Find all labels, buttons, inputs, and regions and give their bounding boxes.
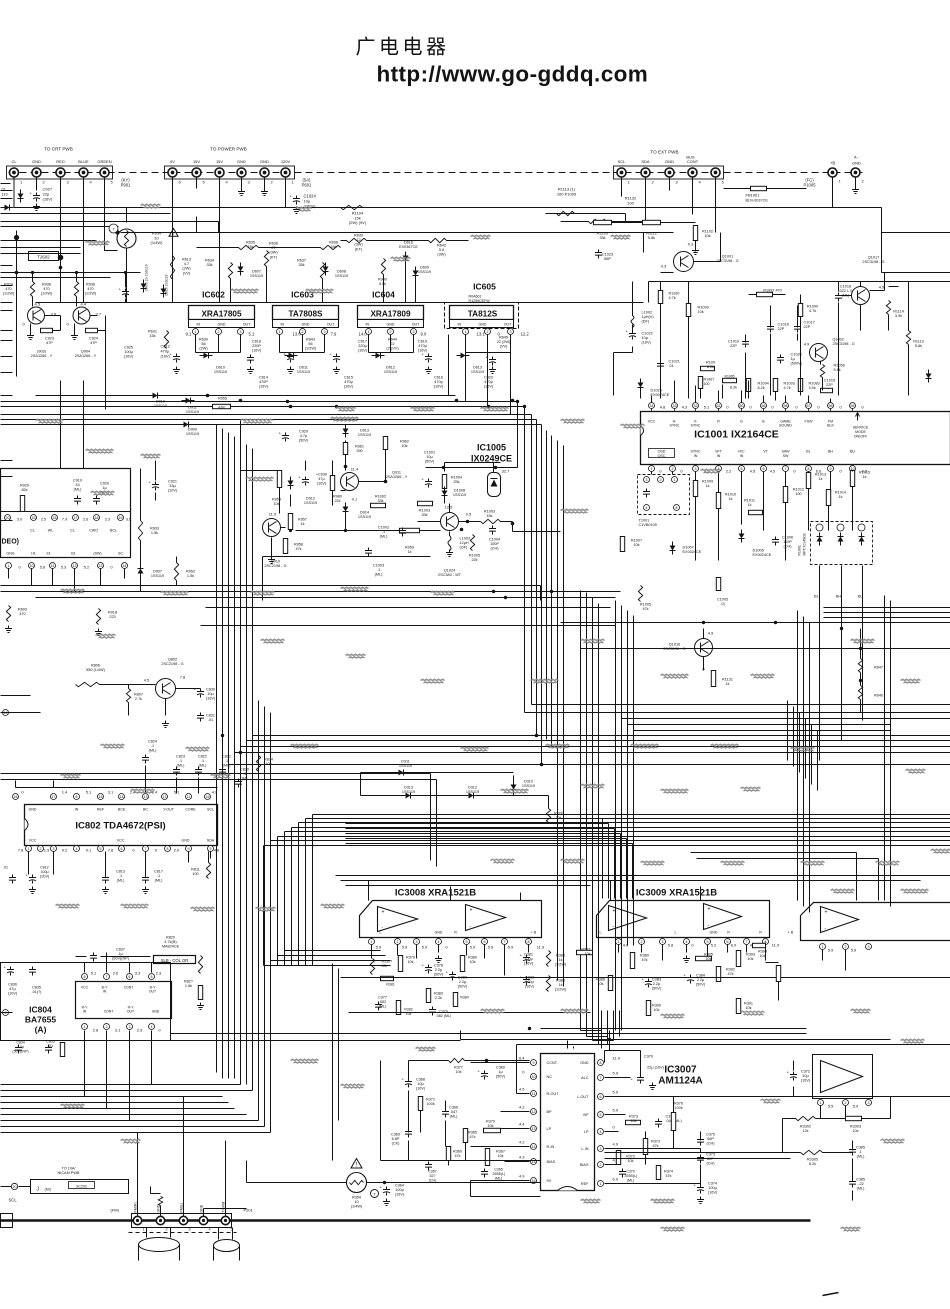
svg-text:D909: D909 — [188, 428, 197, 432]
wire bus y395 — [36, 395, 456, 397]
svg-text:15k: 15k — [247, 245, 253, 249]
wire SCL drop — [622, 177, 716, 233]
transformer T1001 dashed box — [638, 475, 690, 515]
svg-text:220P: 220P — [252, 344, 261, 348]
svg-text:T1001: T1001 — [639, 519, 650, 523]
wire reg drops to bus — [449, 335, 511, 415]
svg-text:AM1124A: AM1124A — [658, 1076, 702, 1087]
wire right rail y281 — [649, 282, 950, 303]
svg-text:5.9: 5.9 — [613, 1108, 619, 1113]
wire left edge stub — [1, 302, 13, 304]
label D312 — [466, 786, 479, 795]
svg-text:(KT): (KT) — [355, 247, 363, 251]
svg-text:C376: C376 — [644, 1055, 653, 1059]
svg-text:470: 470 — [19, 612, 25, 616]
svg-text:10μ: 10μ — [642, 336, 648, 340]
wire bus y625 — [201, 625, 616, 627]
label C375 — [706, 1133, 715, 1146]
svg-text:IC602: IC602 — [202, 290, 225, 300]
junction dot bus — [455, 399, 459, 403]
resistor R1058 — [820, 365, 824, 378]
svg-text:TA7808S: TA7808S — [289, 310, 324, 319]
svg-text:2: 2 — [600, 1163, 602, 1167]
svg-text:R3307: R3307 — [382, 960, 393, 964]
svg-text:5.8: 5.8 — [40, 566, 45, 570]
svg-text:.0055(L): .0055(L) — [624, 1174, 637, 1178]
transistor Q1017 — [852, 287, 870, 305]
capacitor C366 — [442, 1109, 449, 1118]
resistor R3302 — [796, 1116, 816, 1120]
label R1094 — [758, 382, 769, 391]
svg-text:1: 1 — [674, 478, 676, 482]
label R639 — [354, 234, 363, 252]
label C369 — [391, 1133, 400, 1146]
svg-text:+: + — [825, 910, 828, 916]
svg-text:8: 8 — [676, 506, 678, 510]
label C619 — [418, 340, 428, 353]
svg-text:1.9: 1.9 — [44, 848, 50, 853]
wire rail y226 — [1, 226, 119, 228]
connector P201 housing — [132, 1214, 232, 1228]
resistor R613 — [170, 256, 174, 280]
svg-text:6.0: 6.0 — [613, 1177, 619, 1182]
svg-text:56: 56 — [201, 342, 205, 346]
svg-text:7.9: 7.9 — [331, 332, 337, 337]
wire stair to IC3009 — [346, 819, 603, 899]
svg-text:XRA17805: XRA17805 — [201, 310, 242, 319]
resistor R1114 — [886, 301, 890, 315]
label R940 — [378, 278, 387, 287]
svg-text:R940: R940 — [378, 278, 387, 282]
svg-text:D312: D312 — [468, 786, 477, 790]
capacitor C1021 — [657, 361, 664, 370]
resistor R1132 — [589, 219, 607, 223]
svg-text:16: 16 — [53, 516, 57, 520]
label R392 — [726, 968, 735, 977]
ground IC802 cap — [29, 887, 36, 894]
svg-text:5.9: 5.9 — [853, 1104, 859, 1109]
svg-text:4.9: 4.9 — [613, 1142, 619, 1147]
svg-text:5.8: 5.8 — [668, 943, 674, 948]
svg-text:3: 3 — [868, 945, 870, 949]
svg-text:1SS119: 1SS119 — [418, 270, 431, 274]
svg-text:.01(?): .01(?) — [32, 990, 43, 994]
svg-text:C929: C929 — [299, 430, 308, 434]
svg-text:R385: R385 — [556, 954, 565, 958]
resistor R373b — [643, 1139, 647, 1155]
svg-text:(50V): (50V) — [696, 983, 706, 987]
diode D606 — [161, 289, 167, 294]
label R388 — [596, 978, 605, 987]
svg-text:C617: C617 — [358, 340, 367, 344]
diode D909 — [184, 422, 189, 428]
svg-text:L: L — [675, 931, 677, 935]
resistor R377 — [449, 1058, 465, 1062]
svg-text:R637: R637 — [297, 259, 306, 263]
capacitor C369 — [405, 1129, 412, 1138]
connector P601 pin 1 120V — [281, 168, 290, 177]
svg-text:R1103: R1103 — [597, 232, 608, 236]
capacitor C820b — [235, 779, 242, 788]
label SERVICE MODE — [853, 426, 869, 439]
wire regulator 1 pins — [196, 335, 241, 353]
svg-text:1k: 1k — [747, 503, 751, 507]
label 4.9 q1016 — [708, 631, 714, 636]
label R954 — [151, 231, 164, 246]
svg-text:C374: C374 — [708, 1182, 717, 1186]
capacitor C1022 — [629, 331, 636, 340]
wire regulator 2 pins — [280, 335, 325, 353]
svg-text:VCC: VCC — [29, 839, 37, 843]
svg-text:R806: R806 — [91, 664, 100, 668]
svg-text:1k: 1k — [862, 475, 866, 479]
svg-text:10μ: 10μ — [426, 455, 432, 459]
svg-text:4: 4 — [600, 1130, 602, 1134]
label R374 — [664, 1170, 673, 1179]
cable shield 2 — [214, 1246, 240, 1261]
capacitor C920 — [93, 496, 100, 505]
svg-text:R955: R955 — [218, 397, 227, 401]
resistor R392 — [716, 967, 720, 982]
svg-text:EX0324CE: EX0324CE — [683, 550, 702, 554]
pin IC3007 left 15 — [531, 1159, 537, 1165]
wire hbundle F — [235, 753, 950, 1079]
svg-text:.01: .01 — [669, 364, 674, 368]
label R958 — [272, 498, 281, 507]
label R1099 — [698, 306, 709, 315]
pin video top 20 — [5, 515, 11, 521]
svg-text:1: 1 — [822, 945, 824, 949]
wire IC3007 left net — [471, 1045, 950, 1197]
svg-text:7: 7 — [504, 940, 506, 944]
svg-text:SYNC: SYNC — [670, 424, 680, 428]
svg-text:TO CRT PWB: TO CRT PWB — [44, 147, 73, 152]
svg-text:1: 1 — [600, 1182, 602, 1186]
warning triangle R354 — [351, 1159, 362, 1168]
svg-text:5.9: 5.9 — [402, 945, 408, 950]
wire rail y207 — [14, 208, 950, 273]
svg-text:R: R — [727, 931, 730, 935]
junction dot bus2 — [442, 466, 445, 469]
resistor R1003h — [418, 501, 433, 505]
transistor Q903 — [28, 307, 45, 324]
svg-text:(3W): (3W) — [354, 243, 363, 247]
label R1007 — [631, 539, 642, 548]
svg-text:IN: IN — [281, 323, 285, 327]
capacitor C820 — [489, 357, 496, 366]
svg-text:Q1016: Q1016 — [669, 643, 680, 647]
label 4.9 b — [804, 342, 810, 347]
label D914 — [358, 511, 371, 520]
resistor R957 — [288, 514, 292, 530]
capacitor C368 — [405, 1079, 412, 1088]
svg-text:C822: C822 — [198, 755, 207, 759]
svg-text:1: 1 — [618, 940, 620, 944]
svg-text:22P: 22P — [826, 383, 833, 387]
resistor R933 — [138, 521, 142, 541]
svg-text:C820: C820 — [240, 768, 249, 772]
svg-text:(16V): (16V) — [525, 985, 535, 989]
pin IC3009 6 — [725, 939, 731, 945]
svg-text:0: 0 — [110, 566, 112, 570]
svg-text:1k: 1k — [705, 484, 709, 488]
svg-text:GNG: GNG — [6, 552, 14, 556]
svg-text:5.1: 5.1 — [86, 790, 92, 795]
svg-text:R369: R369 — [453, 1150, 462, 1154]
capacitor C1020 — [777, 355, 784, 364]
svg-text:.022 L.0: .022 L.0 — [839, 289, 853, 293]
svg-text:C920: C920 — [100, 482, 109, 486]
wire stair right — [788, 701, 818, 791]
svg-text:CORE: CORE — [185, 808, 196, 812]
connector P201 pin 4 GNE — [199, 1216, 207, 1224]
svg-text:4.3: 4.3 — [682, 405, 688, 410]
svg-text:12: 12 — [356, 238, 360, 242]
capacitor C389 — [481, 1071, 488, 1080]
pin 3 IC1001 bottom — [693, 466, 699, 472]
svg-text:2: 2 — [166, 1228, 168, 1232]
resistor R373a — [626, 1120, 641, 1124]
svg-text:7.8: 7.8 — [18, 848, 24, 853]
resistor R636 — [264, 251, 268, 267]
svg-text:R354: R354 — [352, 1196, 361, 1200]
label R377 — [454, 1066, 463, 1075]
svg-text:IC603: IC603 — [291, 290, 314, 300]
wire regulator feed — [173, 265, 416, 303]
label R1009 — [702, 480, 713, 489]
svg-text:5.2: 5.2 — [711, 943, 717, 948]
svg-text:(10V): (10V) — [168, 489, 178, 493]
label C384 — [696, 974, 706, 987]
resistor R1092 — [757, 292, 773, 296]
label D904 — [75, 350, 97, 359]
capacitor C365 — [481, 1169, 488, 1178]
resistor R936 — [74, 282, 78, 297]
svg-text:6: 6 — [129, 975, 131, 979]
svg-text:BH: BH — [836, 595, 842, 599]
svg-text:(16V): (16V) — [801, 1079, 811, 1083]
svg-text:Q802: Q802 — [168, 658, 177, 662]
warning triangle R954 — [169, 229, 178, 237]
svg-text:CL: CL — [30, 529, 35, 533]
svg-text:C1003: C1003 — [373, 564, 384, 568]
pin IC802 top 15 — [205, 794, 211, 800]
capacitor C807 — [9, 875, 16, 884]
svg-text:33μ: 33μ — [169, 484, 175, 488]
svg-text:14.0: 14.0 — [359, 332, 368, 337]
resistor R385a — [546, 951, 550, 967]
svg-text:OUT: OUT — [149, 990, 156, 994]
svg-text:GND: GND — [218, 323, 226, 327]
svg-text:47P: 47P — [90, 341, 97, 345]
transistor Q1002 — [810, 344, 828, 362]
svg-text:TV/FM: TV/FM — [222, 1202, 226, 1213]
resistor R372 — [616, 1151, 620, 1165]
pin video bottom 10 — [29, 563, 35, 569]
label C1016 — [839, 285, 853, 298]
svg-text:SFT: SFT — [715, 450, 723, 454]
svg-text:REF: REF — [97, 808, 105, 812]
label C372 — [801, 1070, 811, 1083]
connector P201 pin 5 TV/FM — [221, 1216, 229, 1224]
fuse FB1001 — [751, 186, 767, 190]
svg-text:IN: IN — [458, 323, 462, 327]
svg-text:(50V): (50V) — [299, 439, 309, 443]
wire left edge stub — [1, 591, 13, 593]
op-amp IC3009b — [704, 904, 742, 930]
label C1004 — [489, 538, 500, 551]
svg-text:B1: B1 — [71, 552, 75, 556]
svg-text:GND: GND — [182, 839, 190, 843]
junction dot bus2 — [494, 466, 497, 469]
capacitor C371 — [655, 1119, 662, 1128]
label C366 — [449, 1106, 458, 1119]
svg-text:C824: C824 — [148, 740, 157, 744]
resistor R380 — [460, 956, 464, 972]
label C1005 — [717, 598, 728, 607]
label D912b — [304, 497, 317, 506]
svg-text:9.0: 9.0 — [421, 332, 427, 337]
svg-text:100P: 100P — [783, 540, 792, 544]
svg-text:22P: 22P — [778, 327, 785, 331]
resistor R1103 — [594, 220, 612, 224]
label BL BH BU — [814, 595, 819, 599]
svg-text:(16V): (16V) — [344, 385, 354, 389]
connector P601 pin 2 GND — [260, 168, 269, 177]
svg-text:(CK): (CK) — [392, 1142, 401, 1146]
wire IC804 drops — [85, 953, 152, 1121]
capacitor C1004 — [489, 526, 496, 535]
svg-text:LP: LP — [547, 1127, 552, 1131]
capacitor C1001 — [425, 479, 432, 488]
resistor R637 — [320, 263, 324, 279]
svg-text:+C930: +C930 — [316, 473, 327, 477]
label R1103 — [597, 232, 608, 241]
svg-text:10μ: 10μ — [417, 1082, 423, 1086]
svg-text:L-OUT: L-OUT — [577, 1095, 589, 1099]
label TO POWER PWB — [210, 147, 247, 152]
junction dot bus — [239, 399, 243, 403]
svg-text:CONT: CONT — [124, 986, 134, 990]
svg-text:R367: R367 — [496, 1150, 505, 1154]
svg-text:R1095: R1095 — [725, 375, 735, 379]
svg-text:BLK: BLK — [827, 424, 834, 428]
svg-text:R1299CEFW: R1299CEFW — [469, 299, 491, 303]
svg-text:(ML): (ML) — [450, 1115, 459, 1119]
label C615 — [344, 376, 354, 389]
svg-text:R957: R957 — [298, 518, 307, 522]
svg-text:2: 2 — [218, 330, 220, 334]
svg-text:17: 17 — [74, 516, 78, 520]
svg-text:R: R — [759, 931, 762, 935]
svg-text:5.9: 5.9 — [508, 945, 514, 950]
label R380 — [468, 956, 477, 965]
resistor R1096 — [701, 366, 715, 370]
capacitor C377 — [375, 1002, 382, 1011]
svg-text:C1004: C1004 — [489, 538, 500, 542]
svg-text:R389: R389 — [640, 954, 649, 958]
svg-text:(50V): (50V) — [652, 987, 662, 991]
diode D616 — [403, 256, 409, 261]
wire left edge stub — [1, 190, 13, 192]
svg-text:2: 2 — [487, 330, 489, 334]
svg-text:2: 2 — [660, 478, 662, 482]
scan hatch texture — [36, 204, 950, 1231]
connector P201 pin 2 GND — [156, 1216, 164, 1224]
svg-text:SLB - COL OR: SLB - COL OR — [161, 958, 189, 963]
capacitor C832 — [523, 977, 530, 986]
svg-text:3: 3 — [189, 1228, 191, 1232]
svg-text:4: 4 — [438, 940, 440, 944]
svg-text:0.1: 0.1 — [86, 848, 92, 853]
label C374 — [708, 1182, 718, 1195]
ground A-GND — [852, 187, 859, 194]
capacitor C831 — [197, 713, 204, 722]
svg-text:11: 11 — [532, 1092, 536, 1096]
svg-text:RED: RED — [56, 159, 65, 164]
svg-text:OUT: OUT — [327, 323, 335, 327]
svg-text:6: 6 — [76, 795, 78, 799]
wire left edge stub — [1, 476, 13, 478]
pin IC3010 3 — [866, 944, 872, 950]
svg-text:3: 3 — [129, 1025, 131, 1029]
label R1012 — [793, 488, 804, 497]
pin 56 IC1001 top — [761, 403, 767, 409]
svg-text:8.2k: 8.2k — [758, 386, 765, 390]
pin IC3009 2 — [639, 939, 645, 945]
svg-text:D612: D612 — [386, 366, 395, 370]
svg-text:R1005: R1005 — [469, 554, 480, 558]
svg-text:(50V): (50V) — [496, 1075, 506, 1079]
wire vbundle C — [558, 441, 564, 987]
resistor R807 — [126, 689, 130, 703]
pin IC3008 5 — [464, 939, 470, 945]
ground Q903 — [27, 333, 34, 340]
wire hbundle F — [229, 765, 950, 1079]
svg-text:12k: 12k — [802, 1129, 808, 1133]
capacitor C835 — [29, 967, 36, 976]
svg-text:6: 6 — [727, 940, 729, 944]
label 7.8 — [180, 675, 186, 680]
svg-text:1SS119: 1SS119 — [399, 764, 412, 768]
capacitor C1024 — [293, 196, 300, 205]
svg-text:(3W): (3W) — [437, 253, 446, 257]
diode D914 — [343, 507, 349, 512]
svg-text:5.9: 5.9 — [828, 1104, 834, 1109]
svg-text:R587: R587 — [581, 948, 590, 952]
label Q802 — [161, 658, 183, 667]
svg-text:13.1: 13.1 — [477, 332, 486, 337]
resistor R1095 — [723, 378, 737, 382]
svg-text:R980: R980 — [333, 495, 342, 499]
pin IC3009 8 — [763, 939, 769, 945]
op-amp right lower — [821, 1061, 863, 1093]
svg-text:+: + — [613, 909, 616, 915]
thermal T circle — [371, 1190, 379, 1198]
label L1002 — [642, 311, 655, 324]
label R305 — [704, 953, 713, 962]
svg-text:R1003: R1003 — [484, 510, 495, 514]
label R379 — [406, 956, 415, 965]
IC IC804 outer box — [1, 963, 171, 1041]
label C836 — [8, 983, 18, 996]
wire right verticals x79x — [798, 611, 810, 913]
wire left edge stub — [1, 285, 13, 287]
svg-text:5: 5 — [741, 467, 743, 471]
svg-text:1.5k: 1.5k — [187, 574, 194, 578]
svg-text:(16V): (16V) — [642, 341, 652, 345]
capacitor C923 — [41, 328, 53, 332]
